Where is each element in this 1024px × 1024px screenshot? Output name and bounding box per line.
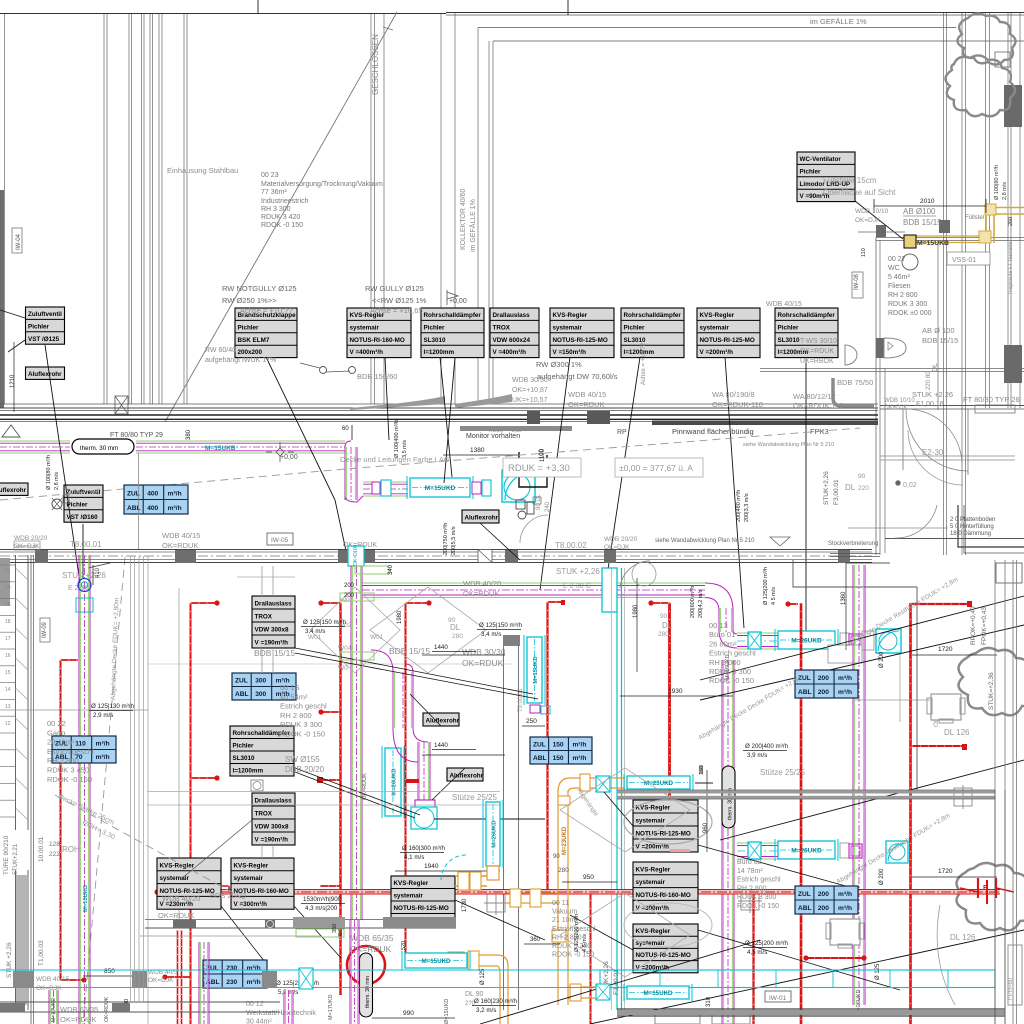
leader bbox=[180, 820, 252, 880]
riser M=26UKD x486 bbox=[483, 800, 503, 868]
svg-text:Pichler: Pichler bbox=[424, 324, 446, 331]
svg-text:ROH: ROH bbox=[62, 845, 80, 854]
svg-text:WDB 40/20: WDB 40/20 bbox=[463, 579, 501, 588]
svg-text:KVS-Regler: KVS-Regler bbox=[160, 862, 195, 869]
pier on duct band bbox=[132, 971, 147, 987]
svg-text:60: 60 bbox=[342, 426, 349, 432]
label Rohrschalldaempfer 3 bbox=[775, 308, 838, 358]
svg-text:AB Ø 100: AB Ø 100 bbox=[922, 326, 955, 335]
svg-text:ZUL: ZUL bbox=[206, 965, 219, 972]
window sill right bottom bbox=[994, 560, 996, 790]
svg-text:4,3 m/s|200: 4,3 m/s|200 bbox=[305, 905, 338, 912]
svg-text:360: 360 bbox=[530, 937, 541, 943]
svg-text:Achse = +10,65: Achse = +10,65 bbox=[370, 306, 423, 315]
svg-text:Füllstel: Füllstel bbox=[965, 215, 984, 221]
svg-text:21: 21 bbox=[5, 568, 11, 574]
svg-text:systemair: systemair bbox=[553, 324, 583, 331]
stub bbox=[320, 779, 341, 781]
svg-text:OK=RDUK: OK=RDUK bbox=[158, 911, 194, 920]
riser M=26UKD left bbox=[382, 746, 404, 818]
svg-text:Aluflexrohr: Aluflexrohr bbox=[465, 515, 499, 522]
svg-text:5 46m²: 5 46m² bbox=[888, 274, 910, 281]
leader bbox=[434, 818, 545, 820]
fan elbow room Buero02 bbox=[886, 841, 908, 863]
svg-text:Oberfläche auf Sicht: Oberfläche auf Sicht bbox=[823, 188, 896, 197]
pipe end bbox=[81, 977, 86, 982]
svg-text:OK=DJK: OK=DJK bbox=[148, 977, 174, 984]
svg-text:200|750 m³/h: 200|750 m³/h bbox=[443, 523, 449, 555]
svg-text:200x200: 200x200 bbox=[238, 349, 263, 356]
main sprinkler line horizontal bbox=[157, 890, 1000, 895]
svg-text:SL3010: SL3010 bbox=[778, 337, 801, 344]
svg-text:l=1200mm: l=1200mm bbox=[624, 349, 655, 356]
svg-text:Füllstelle 15cm: Füllstelle 15cm bbox=[823, 176, 877, 185]
svg-text:2,9 m/s: 2,9 m/s bbox=[93, 712, 113, 719]
fitting bbox=[372, 482, 380, 494]
silencer M=15UKD bbox=[407, 476, 473, 499]
duct drop to diffuser bbox=[418, 742, 430, 800]
svg-text:Ø 100|400 m³/h: Ø 100|400 m³/h bbox=[394, 420, 400, 458]
stub bbox=[191, 602, 217, 604]
svg-text:aufgehängt DW 70,60l/s: aufgehängt DW 70,60l/s bbox=[537, 372, 618, 381]
damper bbox=[748, 632, 761, 649]
duct riser center-right bbox=[722, 660, 734, 1024]
svg-text:OK=RDUK: OK=RDUK bbox=[800, 348, 834, 355]
svg-text:M=15UKD: M=15UKD bbox=[643, 990, 673, 997]
svg-text:18 0 Dämmung: 18 0 Dämmung bbox=[950, 531, 991, 537]
svg-text:400: 400 bbox=[147, 491, 158, 498]
svg-text:RDUK 3 300: RDUK 3 300 bbox=[280, 720, 322, 729]
svg-text:RDOK -0 150: RDOK -0 150 bbox=[737, 903, 779, 910]
svg-text:2010: 2010 bbox=[920, 198, 935, 205]
svg-text:RH 3 300: RH 3 300 bbox=[261, 206, 291, 213]
svg-text:aufgehängt IWUK 17%: aufgehängt IWUK 17% bbox=[205, 357, 276, 364]
svg-text:V =200m³/h: V =200m³/h bbox=[636, 844, 670, 851]
svg-text:KVS-Regler: KVS-Regler bbox=[234, 862, 269, 869]
svg-text:BDB 20/20: BDB 20/20 bbox=[210, 891, 246, 900]
svg-text:FT 80/80 TYP 26: FT 80/80 TYP 26 bbox=[963, 395, 1020, 404]
svg-text:VST /Ø160: VST /Ø160 bbox=[67, 514, 99, 521]
svg-text:im GEFÄLLE 1%: im GEFÄLLE 1% bbox=[810, 17, 867, 26]
svg-text:STUK +2,26: STUK +2,26 bbox=[6, 942, 13, 978]
svg-text:Ø 200: Ø 200 bbox=[879, 868, 885, 885]
svg-text:SL3010: SL3010 bbox=[624, 337, 647, 344]
svg-text:KVS-Regler: KVS-Regler bbox=[636, 866, 671, 873]
airflow ZUL150 bbox=[530, 737, 592, 764]
svg-text:Ø 100|80 m³/h: Ø 100|80 m³/h bbox=[46, 455, 52, 490]
airflow ZUL200 a bbox=[795, 670, 858, 698]
svg-text:OK=RDUK: OK=RDUK bbox=[463, 589, 499, 598]
svg-text:WA 80/12/12: WA 80/12/12 bbox=[793, 392, 836, 401]
svg-text:systemair: systemair bbox=[350, 324, 380, 331]
svg-text:200: 200 bbox=[818, 689, 829, 696]
BDB 75/50 gray pipe bbox=[833, 378, 874, 406]
BSK label left bbox=[14, 541, 40, 550]
svg-text:16: 16 bbox=[5, 653, 11, 659]
airflow ZUL300 bbox=[232, 673, 296, 700]
svg-text:Ø 125|150 m³/h: Ø 125|150 m³/h bbox=[479, 622, 522, 629]
svg-text:DL: DL bbox=[662, 621, 673, 630]
svg-text:Büro 02: Büro 02 bbox=[737, 859, 762, 866]
supply duct bbox=[136, 441, 345, 453]
duct drop bbox=[602, 568, 617, 612]
svg-text:VDW 300x8: VDW 300x8 bbox=[255, 627, 289, 634]
svg-text:RW Ø300 1%: RW Ø300 1% bbox=[536, 360, 582, 369]
svg-text:00 27: 00 27 bbox=[888, 256, 906, 263]
svg-text:l=1200mm: l=1200mm bbox=[424, 349, 455, 356]
svg-text:1730: 1730 bbox=[462, 898, 468, 912]
svg-text:ABL: ABL bbox=[798, 689, 812, 696]
svg-text:4 5 m/s: 4 5 m/s bbox=[771, 587, 777, 605]
svg-text:RP: RP bbox=[617, 429, 627, 436]
svg-text:IW-04: IW-04 bbox=[16, 233, 22, 250]
svg-text:Tragsäule FT-fassade: Tragsäule FT-fassade bbox=[1008, 242, 1014, 295]
svg-text:00 1S: 00 1S bbox=[280, 683, 300, 692]
svg-text:00 23: 00 23 bbox=[261, 172, 279, 179]
svg-text:therm. 30 mm: therm. 30 mm bbox=[80, 445, 118, 452]
svg-text:RDUK 3 300: RDUK 3 300 bbox=[737, 894, 776, 901]
label KVS-Regler 150 bbox=[550, 308, 614, 358]
svg-text:RDOK -0 150: RDOK -0 150 bbox=[47, 775, 92, 784]
wall pier bbox=[1004, 345, 1022, 383]
stub bbox=[652, 602, 670, 604]
leader lines from label boxes bbox=[266, 357, 335, 500]
wall pier bbox=[293, 917, 345, 928]
svg-text:150: 150 bbox=[553, 755, 564, 762]
svg-text:90: 90 bbox=[858, 473, 866, 480]
svg-text:Pichler: Pichler bbox=[28, 323, 50, 330]
svg-text:NOTUS-RI-125-MO: NOTUS-RI-125-MO bbox=[636, 952, 691, 959]
airflow ZUL200 b bbox=[795, 886, 858, 914]
cyan duct corridor vertical bbox=[616, 568, 618, 1010]
svg-text:m³/h: m³/h bbox=[96, 741, 110, 748]
svg-text:siehe Wandabwicklung Plan Nr: siehe Wandabwicklung Plan Nr 5 210 bbox=[655, 538, 755, 544]
svg-text:WDB 40/15: WDB 40/15 bbox=[766, 301, 802, 308]
intake fan symbol left bbox=[52, 499, 62, 509]
svg-text:BDB 75/50: BDB 75/50 bbox=[837, 378, 873, 387]
svg-text:systemair: systemair bbox=[636, 940, 666, 947]
svg-text:Aluflexrohr: Aluflexrohr bbox=[426, 718, 460, 725]
label Brandschutzklappe bbox=[235, 308, 297, 358]
svg-text:systemair: systemair bbox=[394, 893, 424, 900]
svg-text:RW GULLY Ø125: RW GULLY Ø125 bbox=[365, 284, 424, 293]
svg-text:Stütze 25/25: Stütze 25/25 bbox=[452, 793, 497, 802]
svg-text:KVS-Regler: KVS-Regler bbox=[700, 312, 735, 319]
svg-text:siehe Wandabwicklung Plan Nr: siehe Wandabwicklung Plan Nr 5 210 bbox=[743, 442, 834, 448]
silencer bottom left bbox=[402, 951, 470, 970]
svg-text:4 5 m/s: 4 5 m/s bbox=[582, 934, 588, 952]
corridor wall band bbox=[0, 550, 872, 564]
dashed ceiling line bbox=[0, 428, 860, 500]
svg-text:ABL: ABL bbox=[533, 755, 547, 762]
label Rohrschalldaempfer 2 bbox=[621, 308, 684, 358]
svg-text:M=15UKB: M=15UKB bbox=[917, 240, 949, 247]
svg-text:OK=RDUK: OK=RDUK bbox=[350, 944, 392, 954]
wall pier bbox=[175, 550, 196, 563]
pipe end bbox=[214, 775, 219, 780]
svg-text:ZUL: ZUL bbox=[235, 678, 248, 685]
svg-text:18: 18 bbox=[5, 619, 11, 625]
svg-text:SW Ø155: SW Ø155 bbox=[285, 755, 320, 764]
label Aluflexrohr left bbox=[0, 483, 28, 495]
svg-text:20: 20 bbox=[5, 585, 11, 591]
label KVS 300 left bbox=[231, 858, 294, 909]
svg-text:OK=RDUK: OK=RDUK bbox=[568, 400, 604, 409]
svg-text:m³/h: m³/h bbox=[838, 905, 852, 912]
svg-text:OK=DUK: OK=DUK bbox=[353, 545, 359, 566]
silencer M=26UKD room 00 13 bbox=[775, 629, 838, 651]
svg-text:Ø 160|300 m³/h: Ø 160|300 m³/h bbox=[402, 845, 445, 852]
svg-text:1720: 1720 bbox=[938, 868, 953, 875]
label KVS-Regler 400 bbox=[347, 308, 411, 358]
svg-text:260: 260 bbox=[1008, 217, 1014, 226]
room grid bbox=[147, 791, 500, 793]
svg-text:4,5 m/s: 4,5 m/s bbox=[747, 949, 767, 956]
svg-text:WDB 10/10: WDB 10/10 bbox=[855, 208, 889, 215]
svg-text:FT 80/80 TYP 29: FT 80/80 TYP 29 bbox=[110, 432, 163, 439]
svg-text:m³/h: m³/h bbox=[168, 505, 182, 512]
label KVS 200 r1 bbox=[633, 800, 698, 852]
svg-text:SL3010: SL3010 bbox=[233, 755, 256, 762]
svg-text:VDW 600x24: VDW 600x24 bbox=[493, 337, 531, 344]
orange connect bbox=[455, 866, 499, 890]
riser pipe x405 bbox=[405, 603, 407, 953]
svg-text:520: 520 bbox=[401, 941, 407, 950]
svg-text:950: 950 bbox=[583, 874, 594, 881]
pipe end bbox=[426, 600, 431, 605]
riser M=15UKD mid bbox=[524, 635, 545, 705]
wall pier bbox=[1004, 85, 1022, 127]
svg-text:AB Ø100: AB Ø100 bbox=[903, 207, 936, 216]
svg-text:l=1200mm: l=1200mm bbox=[233, 768, 264, 775]
svg-text:+0,00: +0,00 bbox=[280, 454, 298, 461]
svg-text:V =190m³/h: V =190m³/h bbox=[255, 640, 289, 647]
svg-text:ZUL: ZUL bbox=[127, 491, 140, 498]
silencer M=26UKD room Buero02 bbox=[775, 839, 838, 861]
svg-text:1210: 1210 bbox=[10, 374, 16, 388]
diffuser throw diamonds bbox=[310, 587, 400, 673]
monitor gray bar bbox=[460, 426, 572, 431]
svg-text:220: 220 bbox=[858, 485, 869, 492]
svg-text:380: 380 bbox=[186, 429, 192, 440]
svg-text:M=15UKD: M=15UKD bbox=[533, 656, 539, 683]
thermal protection circle bbox=[347, 946, 385, 984]
fitting bbox=[840, 843, 849, 858]
riser pipe x590 bbox=[590, 892, 592, 1024]
stub bbox=[911, 603, 969, 605]
svg-text:ABL: ABL bbox=[235, 691, 249, 698]
svg-text:m³/h: m³/h bbox=[838, 675, 852, 682]
svg-text:M=23UKD: M=23UKD bbox=[562, 826, 568, 855]
svg-text:STUK=+2,36: STUK=+2,36 bbox=[988, 672, 995, 710]
diffuser bbox=[251, 780, 263, 791]
stub bbox=[191, 777, 217, 779]
svg-text:3,9 m/s: 3,9 m/s bbox=[747, 752, 767, 759]
wall pier bbox=[364, 550, 375, 563]
svg-text:TROX: TROX bbox=[493, 324, 511, 331]
duct elbow S bbox=[393, 728, 428, 762]
fitting bbox=[381, 480, 391, 496]
svg-text:40 54m²: 40 54m² bbox=[280, 692, 308, 701]
stub bbox=[548, 601, 564, 603]
svg-text:TROX: TROX bbox=[255, 811, 273, 818]
svg-text:BDB 15/15: BDB 15/15 bbox=[254, 648, 295, 658]
svg-text:Fliesen: Fliesen bbox=[888, 283, 911, 290]
svg-text:OK=DJK: OK=DJK bbox=[884, 405, 908, 411]
pipe end bbox=[861, 955, 866, 960]
stub bbox=[322, 602, 341, 604]
svg-text:M=26UKD: M=26UKD bbox=[791, 638, 822, 645]
svg-text:200: 200 bbox=[818, 905, 829, 912]
stair corridor verticals bbox=[130, 556, 132, 1002]
svg-text:26 80m²: 26 80m² bbox=[709, 639, 737, 648]
branch duct room Buero 02 bbox=[737, 843, 778, 859]
svg-text:VSS-01: VSS-01 bbox=[952, 257, 976, 264]
airflow ZUL400 bbox=[124, 485, 188, 514]
svg-text:1380: 1380 bbox=[470, 447, 485, 454]
svg-text:V =300m³/h: V =300m³/h bbox=[234, 901, 268, 908]
svg-text:Zuluftventil: Zuluftventil bbox=[28, 311, 62, 318]
svg-text:00 13: 00 13 bbox=[709, 621, 728, 630]
fan unit elbow bbox=[502, 470, 535, 502]
label WC-Ventilator bbox=[797, 152, 855, 202]
stub bbox=[61, 979, 84, 981]
grid line bbox=[138, 453, 140, 549]
svg-text:GESCHLOSSEN: GESCHLOSSEN bbox=[371, 34, 380, 95]
svg-text:RH 2 800: RH 2 800 bbox=[737, 885, 767, 892]
stub bbox=[406, 602, 429, 604]
svg-text:m³/h: m³/h bbox=[572, 755, 586, 762]
svg-text:NOTUS-RI-125-MO: NOTUS-RI-125-MO bbox=[553, 337, 608, 344]
label KVS-Regler 200 bbox=[697, 308, 760, 358]
svg-text:BSK ELM7: BSK ELM7 bbox=[238, 337, 270, 344]
svg-text:DL: DL bbox=[932, 363, 939, 372]
svg-text:T1,00.03: T1,00.03 bbox=[38, 940, 45, 966]
svg-text:2 0 Plattenboden: 2 0 Plattenboden bbox=[950, 517, 995, 523]
riser pipe x190 bbox=[190, 603, 192, 1024]
svg-text:77 36m²: 77 36m² bbox=[261, 189, 287, 196]
fitting bbox=[849, 844, 862, 858]
svg-text:BDB 15/15: BDB 15/15 bbox=[922, 336, 958, 345]
svg-text:systemair: systemair bbox=[700, 324, 730, 331]
duct drop lines to Drallauslass low bbox=[261, 845, 263, 858]
svg-text:KVS-Regler: KVS-Regler bbox=[394, 880, 429, 887]
svg-text:90: 90 bbox=[660, 613, 668, 620]
svg-text:E 2-30-C: E 2-30-C bbox=[563, 583, 591, 590]
wall pier bbox=[604, 550, 616, 563]
svg-text:RDUK 3 300: RDUK 3 300 bbox=[888, 301, 927, 308]
svg-text:340: 340 bbox=[388, 564, 394, 575]
svg-text:Ø 125: Ø 125 bbox=[875, 963, 881, 980]
svg-text:Aluflexrohr: Aluflexrohr bbox=[0, 487, 27, 494]
svg-text:WDB 30/30: WDB 30/30 bbox=[512, 377, 548, 384]
VSS-01 box bbox=[947, 252, 990, 265]
svg-text:RDUK 3 420: RDUK 3 420 bbox=[261, 214, 300, 221]
svg-text:M=15UKD: M=15UKD bbox=[421, 958, 451, 965]
svg-text:m³/h: m³/h bbox=[168, 491, 182, 498]
svg-text:90: 90 bbox=[553, 854, 560, 860]
wall band rooms right bbox=[617, 790, 995, 799]
leaders lower bbox=[295, 648, 533, 694]
pink mark bbox=[670, 849, 690, 852]
room divider walls bbox=[503, 645, 505, 1010]
wall pier bbox=[35, 550, 48, 563]
svg-text:Drallauslass: Drallauslass bbox=[255, 601, 293, 608]
therm capsule vertical bbox=[722, 766, 735, 828]
riser pipe x910 bbox=[909, 603, 912, 1024]
tree crown top right bbox=[945, 55, 1015, 116]
svg-text:Ø 160|230 m³/h: Ø 160|230 m³/h bbox=[474, 998, 517, 1005]
triangle symbol bbox=[2, 425, 20, 437]
svg-text:3,5 m/s: 3,5 m/s bbox=[402, 440, 408, 458]
svg-text:15: 15 bbox=[5, 670, 11, 676]
svg-text:Achse = +10,??: Achse = +10,?? bbox=[240, 306, 293, 315]
svg-text:NOTUS-RI-160-MO: NOTUS-RI-160-MO bbox=[636, 892, 691, 899]
svg-text:Gang: Gang bbox=[47, 728, 65, 737]
svg-text:Ø 125|130 m³/h: Ø 125|130 m³/h bbox=[91, 703, 134, 710]
svg-text:IW-01: IW-01 bbox=[769, 995, 787, 1002]
svg-text:DL 90: DL 90 bbox=[465, 991, 484, 998]
svg-text:KVS-Regler: KVS-Regler bbox=[636, 928, 671, 935]
svg-text:200: 200 bbox=[344, 583, 355, 589]
pier bbox=[527, 411, 540, 424]
column marker bbox=[484, 891, 508, 915]
svg-text:200|600 m³/h: 200|600 m³/h bbox=[690, 586, 696, 618]
wall pier bbox=[876, 225, 886, 237]
sprinkler pipe bbox=[181, 930, 183, 1024]
svg-text:NOTUS-RI-160-MO: NOTUS-RI-160-MO bbox=[350, 337, 405, 344]
svg-text:M=26UKD: M=26UKD bbox=[791, 848, 822, 855]
svg-text:RDOK ±0 000: RDOK ±0 000 bbox=[888, 310, 932, 317]
svg-text:NOTUS-RI-125-MO: NOTUS-RI-125-MO bbox=[394, 905, 449, 912]
svg-text:Ø 125|200 m³/h: Ø 125|200 m³/h bbox=[574, 914, 580, 952]
svg-text:Werkstatt/Haustechnik: Werkstatt/Haustechnik bbox=[246, 1010, 316, 1017]
diffuser connections bbox=[340, 593, 374, 601]
wall pier left bbox=[0, 190, 4, 408]
diffuser outlet bbox=[411, 800, 437, 829]
svg-text:200: 200 bbox=[818, 891, 829, 898]
svg-text:WDB 40/15: WDB 40/15 bbox=[36, 976, 70, 983]
svg-text:Pichler: Pichler bbox=[778, 324, 800, 331]
svg-text:350: 350 bbox=[332, 924, 338, 933]
level annotation boxes bbox=[503, 458, 581, 477]
svg-text:0,02: 0,02 bbox=[903, 482, 917, 489]
duct drop to room bbox=[719, 608, 733, 632]
svg-text:RDOK -0 150: RDOK -0 150 bbox=[709, 676, 754, 685]
svg-text:Ø 200|400 m³/h: Ø 200|400 m³/h bbox=[745, 743, 788, 750]
pipe end bbox=[785, 601, 790, 606]
label Aluflexrohr bbox=[26, 367, 65, 379]
svg-text:Ø=15UKD: Ø=15UKD bbox=[444, 999, 450, 1024]
svg-text:Aluflexrohr: Aluflexrohr bbox=[28, 371, 62, 378]
svg-text:STUK +2,26: STUK +2,26 bbox=[556, 567, 600, 576]
svg-text:Rohrschalldämpfer: Rohrschalldämpfer bbox=[624, 312, 682, 319]
svg-text:Ø 125|150 m³/h: Ø 125|150 m³/h bbox=[303, 619, 346, 626]
svg-text:V =400m³/h: V =400m³/h bbox=[350, 349, 384, 356]
svg-text:T8.00.01: T8.00.01 bbox=[70, 540, 102, 549]
toilet bbox=[876, 338, 906, 358]
svg-text:Rohrschalldämpfer: Rohrschalldämpfer bbox=[778, 312, 836, 319]
building grid and walls bbox=[0, 0, 1024, 555]
chair bbox=[826, 919, 864, 948]
svg-text:Estrich geschl: Estrich geschl bbox=[280, 702, 327, 711]
svg-text:200|480 m³/h: 200|480 m³/h bbox=[736, 490, 742, 522]
svg-text:V =150m³/h: V =150m³/h bbox=[553, 349, 587, 356]
svg-text:20 41m²: 20 41m² bbox=[47, 738, 75, 747]
svg-text:Pichler: Pichler bbox=[800, 168, 822, 175]
svg-text:RDUK = +3,30: RDUK = +3,30 bbox=[489, 428, 522, 434]
svg-text:Stockverbreiterung: Stockverbreiterung bbox=[828, 541, 878, 547]
